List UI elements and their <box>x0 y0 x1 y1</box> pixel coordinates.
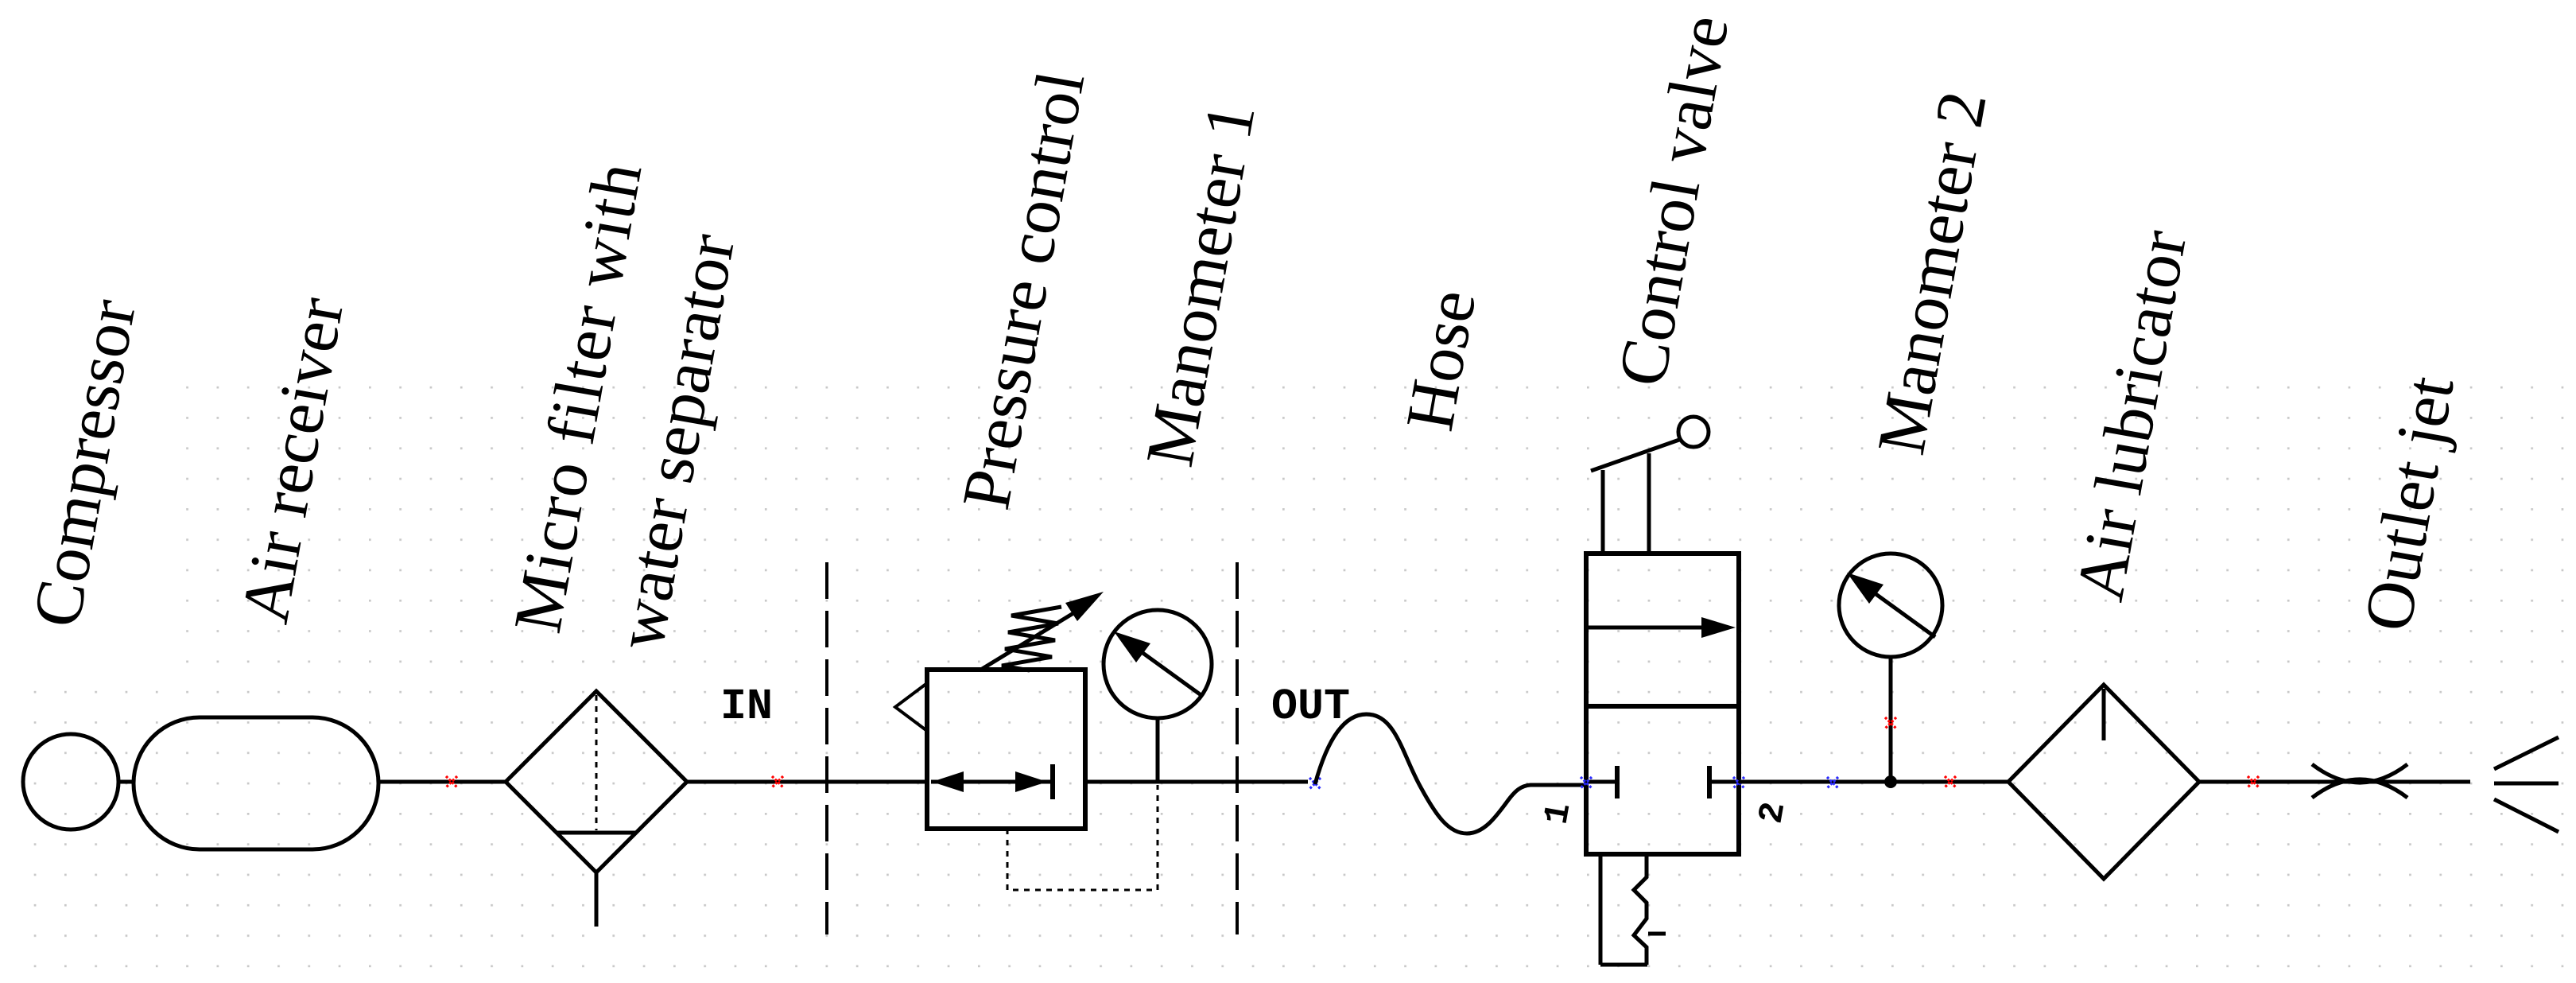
filter dashed center line <box>596 695 598 830</box>
control valve roller lever actuator <box>1591 417 1709 554</box>
pressure control body <box>927 670 1085 829</box>
micro filter with water separator <box>506 691 687 927</box>
dashed pilot feedback line <box>1007 785 1158 890</box>
node marker red x 2 <box>772 776 783 787</box>
node marker blue x 1 <box>1309 778 1321 789</box>
node marker red x 1 <box>446 776 457 787</box>
pressure control spring <box>1002 607 1061 670</box>
air receiver <box>134 717 378 849</box>
wire regulator to OUT <box>1085 780 1308 784</box>
control valve flow arrow <box>1588 617 1736 638</box>
wire filter to regulator <box>685 780 927 784</box>
control valve blocked port 1 <box>1589 766 1617 798</box>
wire receiver to filter <box>378 780 507 784</box>
svg-text:OUT: OUT <box>1271 682 1350 732</box>
outlet jet spray <box>2494 737 2559 832</box>
manometer 1 <box>1104 610 1212 780</box>
node marker red x 3 <box>1945 776 1956 787</box>
pressure control relief triangle <box>895 683 927 731</box>
node marker red x 4 <box>2248 776 2259 787</box>
grid dots region main <box>185 385 2576 983</box>
compressor <box>23 734 118 830</box>
node marker blue x valve right <box>1733 777 1744 788</box>
node marker blue x valve left <box>1581 777 1592 788</box>
pressure control flow path <box>931 764 1053 799</box>
svg-text:IN: IN <box>720 682 773 732</box>
dashed boundary line right <box>1236 562 1239 934</box>
wire lubricator to outlet <box>2199 780 2470 784</box>
dashed boundary line left <box>825 562 828 934</box>
node marker red x gauge stem <box>1885 717 1896 729</box>
throttle restriction arcs <box>2312 764 2407 798</box>
control valve blocked port 2 <box>1709 766 1738 798</box>
air lubricator <box>2008 685 2199 879</box>
junction dot <box>1884 775 1897 788</box>
hose <box>1315 714 1587 833</box>
node marker blue x 2 <box>1827 777 1838 788</box>
grid dots region lower-left <box>33 690 185 983</box>
wire valve to lubricator <box>1739 780 2010 784</box>
control valve body <box>1586 554 1739 854</box>
manometer 2 <box>1839 554 1942 780</box>
control valve return spring <box>1600 857 1666 965</box>
pressure control adjustment arrow <box>980 592 1104 670</box>
wire compressor to receiver <box>118 780 135 784</box>
